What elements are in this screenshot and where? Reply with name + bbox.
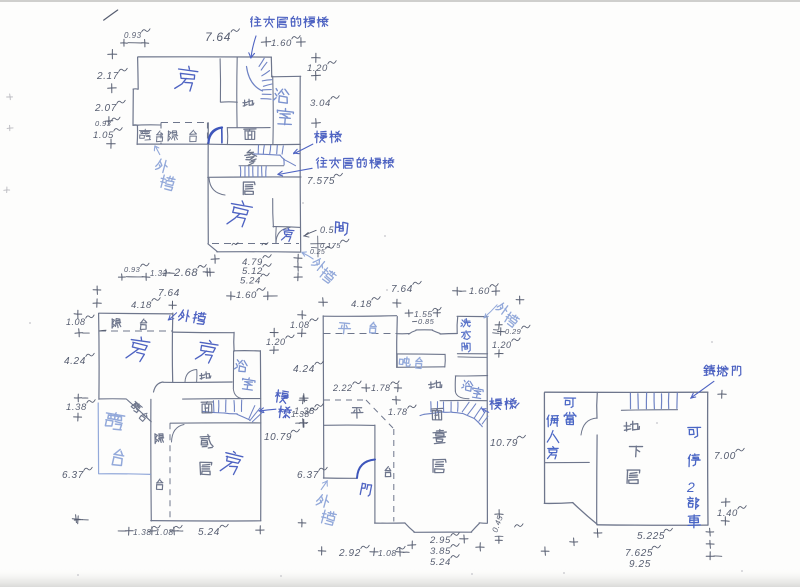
plan C outer wall label top right light blue: [495, 301, 509, 315]
dim 0.175 and 0.25 small: [317, 236, 319, 257]
svg-text:1.60: 1.60: [271, 38, 292, 49]
svg-text:1.38: 1.38: [133, 527, 152, 537]
label stairs to mezzanine right blue: [316, 157, 327, 168]
plan A mezzanine stair lower flight: [239, 165, 284, 167]
plan C platform label vertical: [351, 408, 362, 419]
plan C right dims: [493, 329, 498, 331]
svg-text:0.5: 0.5: [320, 225, 335, 235]
svg-text:1.08: 1.08: [290, 320, 310, 330]
plan A terrace band bottom wall: [137, 143, 208, 145]
ground label mian: [244, 129, 256, 140]
plan B interior line below stair: [170, 422, 261, 424]
plan A bottom dashed balcony line: [212, 243, 299, 245]
svg-text:6.37: 6.37: [297, 470, 319, 481]
plan C stair top line: [440, 399, 487, 401]
svg-text:4.24: 4.24: [293, 364, 315, 375]
plan B stairs label blue with arrow: [275, 390, 289, 404]
bath label yu-shi vertical blue: [273, 88, 289, 103]
svg-text:5.24: 5.24: [198, 527, 220, 538]
svg-text:3.04: 3.04: [310, 98, 331, 109]
svg-text:0.25: 0.25: [310, 249, 325, 256]
small room label fang blue: [281, 228, 294, 242]
plan C bottom outline with chamfers: [375, 522, 405, 524]
left dims plan A: [108, 53, 117, 55]
plan A bottom chamfer: [208, 244, 218, 252]
svg-text:4.18: 4.18: [131, 300, 152, 311]
plan C stairs label blue right: [490, 398, 502, 409]
svg-text:2.17: 2.17: [96, 71, 119, 82]
svg-text:5.24: 5.24: [240, 276, 261, 287]
right dims plan A upper: [312, 57, 321, 59]
svg-text:1.08: 1.08: [66, 317, 86, 327]
svg-text:7.575: 7.575: [307, 176, 335, 187]
svg-text:1.60: 1.60: [236, 290, 257, 301]
plan B stair top line: [183, 398, 261, 401]
plan C interior wall horizontal: [324, 424, 375, 426]
paper specks: [384, 235, 386, 237]
svg-text:10.79: 10.79: [490, 438, 518, 449]
plan C left wall: [322, 316, 325, 478]
svg-text:1.38: 1.38: [294, 406, 315, 417]
plan C laundry label blue vertical: [461, 319, 470, 327]
plan C bar label light blue: [399, 356, 411, 366]
plan C bottom-left wall and door: [323, 477, 357, 479]
paper bottom scan shade: [0, 568, 800, 587]
ground label di: [243, 99, 254, 106]
plan B lower balcony strip: [150, 399, 152, 521]
plan B left dims: [74, 313, 82, 315]
svg-text:0.85: 0.85: [418, 317, 435, 326]
plan C platform dashed bottom: [324, 333, 397, 335]
plan B outer wall label blue top: [178, 309, 190, 322]
plan A outer wall top edge: [138, 56, 271, 58]
plan B step to bath: [234, 350, 260, 352]
plan D outer walls: [545, 391, 708, 393]
terrace balcony labels lu-tai yang-tai: [139, 129, 151, 140]
plan B di mian labels: [200, 372, 211, 379]
svg-text:7.00: 7.00: [714, 451, 736, 462]
plan A closet walls: [219, 59, 221, 102]
plan A right wall: [299, 76, 302, 251]
plan C bath label light blue: [461, 380, 473, 391]
plan A body left wall: [207, 123, 209, 244]
svg-text:1.08: 1.08: [378, 548, 397, 558]
plan C first floor label: [433, 430, 446, 444]
svg-text:9.25: 9.25: [629, 559, 651, 570]
plan D roller door label blue with arrow: [704, 365, 715, 376]
plan C labels platform light blue top: [338, 323, 351, 335]
svg-text:1.20: 1.20: [307, 63, 328, 74]
plan B bottom wall: [151, 520, 261, 522]
stray pen slash top-left: [104, 10, 118, 20]
plan A balcony dashed box: [161, 122, 208, 124]
svg-text:1.78: 1.78: [388, 407, 408, 417]
label outer-wall light blue bottom right of plan A: [311, 256, 327, 272]
svg-text:5.225: 5.225: [637, 531, 665, 542]
svg-text:6.37: 6.37: [62, 470, 84, 481]
svg-text:5.24: 5.24: [430, 557, 451, 568]
plan A floor line lower: [208, 176, 301, 178]
mezzanine label ceng: [243, 182, 255, 194]
svg-text:2.22: 2.22: [332, 383, 353, 393]
svg-text:1.40: 1.40: [717, 508, 738, 519]
plan A bottom wall: [217, 251, 301, 253]
svg-text:1.60: 1.60: [469, 286, 490, 297]
plan B bath label blue: [234, 359, 248, 372]
plan B terrace diagonal corner: [126, 399, 151, 422]
plan A door arc lower room: [209, 178, 225, 195]
plan A step to bathroom: [272, 75, 301, 78]
plan B balcony label top strip: [112, 319, 121, 329]
plan B door arc corridor: [185, 370, 197, 383]
svg-text:10.79: 10.79: [264, 432, 292, 443]
svg-text:2.07: 2.07: [94, 103, 117, 114]
svg-text:4.18: 4.18: [351, 299, 372, 310]
room label fang upper - blue cursive: [175, 65, 199, 92]
plan D basement label vertical: [624, 421, 639, 431]
plan C left dims: [298, 314, 306, 316]
plan A mezzanine stair upper flight: [253, 154, 280, 155]
plan B right wall upper: [233, 332, 235, 351]
svg-text:3.85: 3.85: [430, 546, 451, 557]
plan D roller door hatch band: [621, 409, 677, 412]
plan C bath box: [455, 375, 487, 377]
svg-text:2.95: 2.95: [429, 535, 451, 546]
svg-text:7.64: 7.64: [158, 288, 180, 299]
plan C laundry box: [456, 317, 459, 334]
plan A left wall with notch: [137, 57, 140, 89]
svg-text:2.68: 2.68: [173, 267, 198, 279]
svg-text:7.64: 7.64: [205, 30, 231, 44]
plan C door label blue: [360, 483, 371, 496]
svg-text:1.38: 1.38: [66, 402, 87, 413]
plan D label can park 2 cars blue: [688, 427, 701, 437]
mezzanine label can: [245, 150, 257, 165]
label outer-wall light blue left: [155, 158, 169, 173]
plan A spiral stair to roof: [247, 67, 263, 92]
plan B wall between rooms vertical: [171, 313, 173, 382]
svg-text:0.93: 0.93: [124, 265, 141, 274]
plan D servant room partition: [545, 461, 590, 463]
plan D interior wall vertical with door: [596, 392, 599, 418]
svg-text:0.45: 0.45: [490, 514, 504, 534]
svg-text:7.64: 7.64: [391, 284, 413, 295]
plan B top wall right room: [173, 331, 234, 334]
plan B second-floor label: [200, 435, 213, 448]
room label fang lower - blue cursive: [227, 199, 253, 228]
faint margin marks: [7, 96, 13, 98]
paper background top scan edge: [0, 0, 800, 2]
svg-text:2.92: 2.92: [338, 548, 361, 559]
plan B balcony label vertical: [155, 434, 164, 444]
svg-text:0.29: 0.29: [505, 327, 522, 336]
label stairs-to-mezzanine top blue with arrow: [251, 17, 261, 27]
plan D label can-be servant room blue: [564, 398, 575, 408]
plan C platform strip top wall: [323, 315, 396, 318]
plan B interior wall above corridor with rounded end: [163, 381, 232, 383]
plan B stair hatches and fan: [203, 411, 224, 413]
plan C top edge with bay bump: [398, 333, 409, 335]
label stairs blue right: [315, 131, 327, 143]
svg-text:1.20: 1.20: [266, 337, 286, 347]
plan B balcony strip dashed bottom: [99, 330, 173, 332]
plan B terrace label big light blue: [104, 411, 125, 430]
plan B top wall: [99, 312, 173, 315]
svg-text:1.78: 1.78: [371, 383, 391, 393]
svg-text:2: 2: [686, 479, 695, 495]
plan C stray plus right: [516, 299, 524, 301]
plan B door arc at left of lower room: [172, 425, 185, 443]
plan A bathroom left wall: [272, 76, 275, 144]
plan C bar counter box: [397, 353, 445, 356]
svg-text:0.93: 0.93: [124, 31, 142, 40]
plan C outer wall label light blue bottom: [316, 493, 331, 508]
plan B right wall: [259, 351, 261, 521]
plan B terrace label diagonal small: [130, 401, 143, 413]
plan C stair fan: [420, 414, 424, 415]
plan A floor line mid: [208, 143, 300, 145]
plan C wall right of platform: [396, 317, 399, 368]
plan A right wall upper: [270, 57, 272, 76]
plan D right dims: [718, 393, 726, 395]
plan A door arc bold blue at balcony: [209, 128, 223, 144]
svg-text:7.625: 7.625: [625, 548, 653, 559]
plan C interior wall vertical: [374, 425, 376, 523]
plan C dashed platform boundary: [324, 399, 366, 401]
plan B left wall: [98, 313, 100, 399]
plan B light blue terrace outline: [97, 403, 99, 474]
plan A interior wall small room: [272, 199, 275, 227]
plan A threshold wall under mezzanine: [227, 127, 270, 129]
plan B room labels blue cursive: [126, 335, 151, 363]
plan C di mian labels: [429, 381, 442, 389]
plan B right dims: [270, 332, 278, 334]
plan B bottom dims: [118, 530, 126, 532]
svg-text:1.08: 1.08: [155, 527, 174, 537]
plan B bath left wall and door arc: [232, 351, 234, 388]
svg-text:4.24: 4.24: [64, 356, 86, 367]
svg-text:1.20: 1.20: [492, 340, 512, 350]
dim 1.60 top plan A: [261, 41, 271, 44]
plan A small room door arc: [276, 228, 290, 244]
